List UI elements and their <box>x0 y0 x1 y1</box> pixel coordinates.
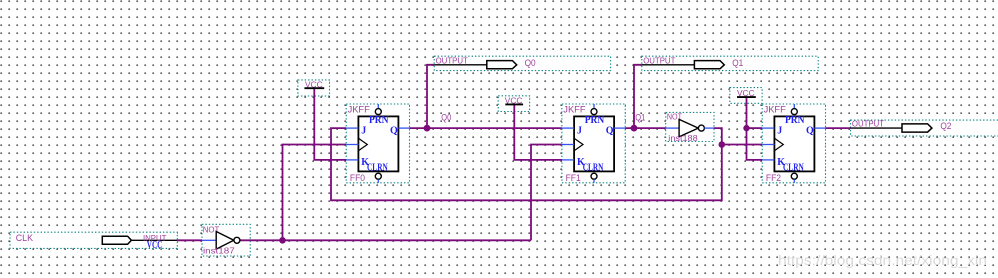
FF0 Q output stub <box>398 127 409 129</box>
wire: NOT inst187 output bus along bottom <box>240 239 531 241</box>
svg-text:Q: Q <box>606 126 614 137</box>
FF2 clock input stub <box>762 144 774 146</box>
svg-text:OUTPUT: OUTPUT <box>643 56 675 65</box>
Q1 output flag symbol <box>694 61 724 69</box>
wire: Q1 riser to output connector <box>634 65 642 128</box>
svg-text:Q2: Q2 <box>940 121 951 131</box>
wire: CLK to NOT inst187 input <box>177 239 202 241</box>
junction at VCC3 and FF2 J <box>743 125 749 131</box>
VCC1 bar <box>304 87 324 89</box>
FF1 CLRN bubble <box>591 173 597 179</box>
VCC3 bar <box>737 96 756 98</box>
junction on net Q0 <box>424 125 431 132</box>
FF0 CLRN bubble <box>375 173 381 179</box>
svg-text:CLRN: CLRN <box>367 163 388 174</box>
wire: Q0 riser to output connector <box>427 65 434 128</box>
selection box of flip-flop FF1 <box>562 104 625 183</box>
FF0 PRN pin stub <box>377 104 379 108</box>
svg-text:J: J <box>577 126 582 137</box>
svg-text:J: J <box>777 126 782 137</box>
FF1 J input stub <box>562 127 574 129</box>
svg-text:https://blog.csdn.net/xiong_xi: https://blog.csdn.net/xiong_xin <box>778 252 987 268</box>
junction on clock bus at FF0 riser <box>279 237 286 244</box>
svg-text:CLRN: CLRN <box>583 163 604 174</box>
FF1 PRN pin stub <box>593 104 595 108</box>
FF1 K input stub <box>562 159 574 161</box>
inst187 bubble <box>234 237 240 243</box>
selection box of power symbol VCC2 <box>498 96 529 112</box>
FF1 CLRN pin stub <box>593 179 595 183</box>
svg-text:Q: Q <box>390 126 398 137</box>
FF2 K input stub <box>762 159 774 161</box>
inst188 input stub <box>666 127 679 129</box>
svg-text:CLK: CLK <box>16 233 34 243</box>
inst187 triangle <box>216 232 234 250</box>
FF2 body rectangle <box>774 116 814 171</box>
svg-text:Q0: Q0 <box>441 113 451 123</box>
inst188 bubble <box>698 125 704 131</box>
wire: FF1 clock riser <box>531 145 562 241</box>
selection box of output connector Q1 <box>642 56 818 70</box>
wire: VCC3 node to FF2 J input <box>747 127 763 129</box>
svg-text:Q0: Q0 <box>525 58 536 68</box>
selection box of NOT gate inst187 <box>202 224 250 256</box>
FF0 CLRN pin stub <box>377 179 379 183</box>
inst188 output stub <box>704 127 714 129</box>
CLK input flag symbol <box>102 236 131 244</box>
wire: FF0 clock riser <box>283 145 347 241</box>
selection box of flip-flop FF2 <box>762 104 825 183</box>
svg-text:FF1: FF1 <box>566 173 581 183</box>
FF0 clock input stub <box>346 144 358 146</box>
junction on net Q1 <box>631 125 638 132</box>
FF0 J input stub <box>346 127 358 129</box>
svg-text:JKFF: JKFF <box>563 105 586 115</box>
svg-text:VCC: VCC <box>147 240 163 251</box>
svg-text:JKFF: JKFF <box>348 105 371 115</box>
FF1 clock input stub <box>562 144 574 146</box>
wire: VCC2 to FF1 K input <box>514 104 562 159</box>
svg-text:OUTPUT: OUTPUT <box>436 56 468 65</box>
svg-text:inst188: inst188 <box>668 133 698 143</box>
svg-text:Q: Q <box>806 126 814 137</box>
FF0 PRN bubble <box>375 109 381 115</box>
FF1 clock edge triangle <box>574 138 583 151</box>
selection box of output connector Q0 <box>434 56 610 70</box>
Q0 output flag symbol <box>487 61 517 69</box>
selection box of power symbol VCC3 <box>730 88 762 104</box>
VCC2 bar <box>505 103 523 105</box>
svg-text:inst187: inst187 <box>203 245 235 255</box>
FF2 clock edge triangle <box>774 138 783 151</box>
FF2 Q output stub <box>814 127 825 129</box>
CLK connector lead wire <box>131 239 177 241</box>
inst188 triangle <box>679 119 698 136</box>
selection box of NOT gate inst188 <box>666 112 714 141</box>
wire: FF0 Q to FF1 J input (net Q0) <box>410 127 562 129</box>
junction at FF2 clock branch <box>719 141 726 148</box>
selection box of power symbol VCC1 <box>298 80 330 96</box>
svg-text:PRN: PRN <box>369 115 389 126</box>
svg-text:PRN: PRN <box>785 115 805 126</box>
selection box of flip-flop FF0 <box>346 104 409 183</box>
wire: FF1 Q to NOT inst188 input (net Q1) <box>625 127 666 129</box>
FF1 body rectangle <box>574 116 614 171</box>
Q1 connector lead wire <box>642 64 695 66</box>
Q2 connector lead wire <box>851 127 903 129</box>
FF2 PRN pin stub <box>793 104 795 108</box>
svg-text:CLRN: CLRN <box>783 163 804 174</box>
svg-text:OUTPUT: OUTPUT <box>852 120 884 129</box>
FF2 PRN bubble <box>791 109 797 115</box>
FF1 PRN bubble <box>591 109 597 115</box>
FF0 clock edge triangle <box>358 138 367 151</box>
svg-text:JKFF: JKFF <box>764 105 787 115</box>
wire: FF2 Q to output connector Q2 <box>825 127 850 129</box>
svg-text:Q1: Q1 <box>732 58 743 68</box>
FF2 CLRN pin stub <box>793 179 795 183</box>
svg-text:FF0: FF0 <box>350 173 365 183</box>
selection box of input connector CLK <box>10 232 177 248</box>
Q2 output flag symbol <box>902 124 932 132</box>
FF1 Q output stub <box>614 127 625 129</box>
Q0 connector lead wire <box>434 64 487 66</box>
FF0 body rectangle <box>358 116 398 171</box>
FF0 K input stub <box>346 159 358 161</box>
svg-text:Q1: Q1 <box>635 113 645 123</box>
FF2 CLRN bubble <box>791 173 797 179</box>
svg-text:PRN: PRN <box>585 115 605 126</box>
svg-text:FF2: FF2 <box>766 173 781 183</box>
selection box of output connector Q2 <box>851 120 998 136</box>
wire: NOT inst188 output feedback to FF0 J input <box>331 128 722 200</box>
svg-text:J: J <box>361 126 366 137</box>
wire: VCC3 down to FF2 K input <box>747 97 763 160</box>
FF2 J input stub <box>762 127 774 129</box>
wire: branch to FF2 clock input <box>722 144 762 146</box>
wire: VCC1 to FF0 K input <box>314 88 346 160</box>
inst187 input stub <box>202 239 216 241</box>
